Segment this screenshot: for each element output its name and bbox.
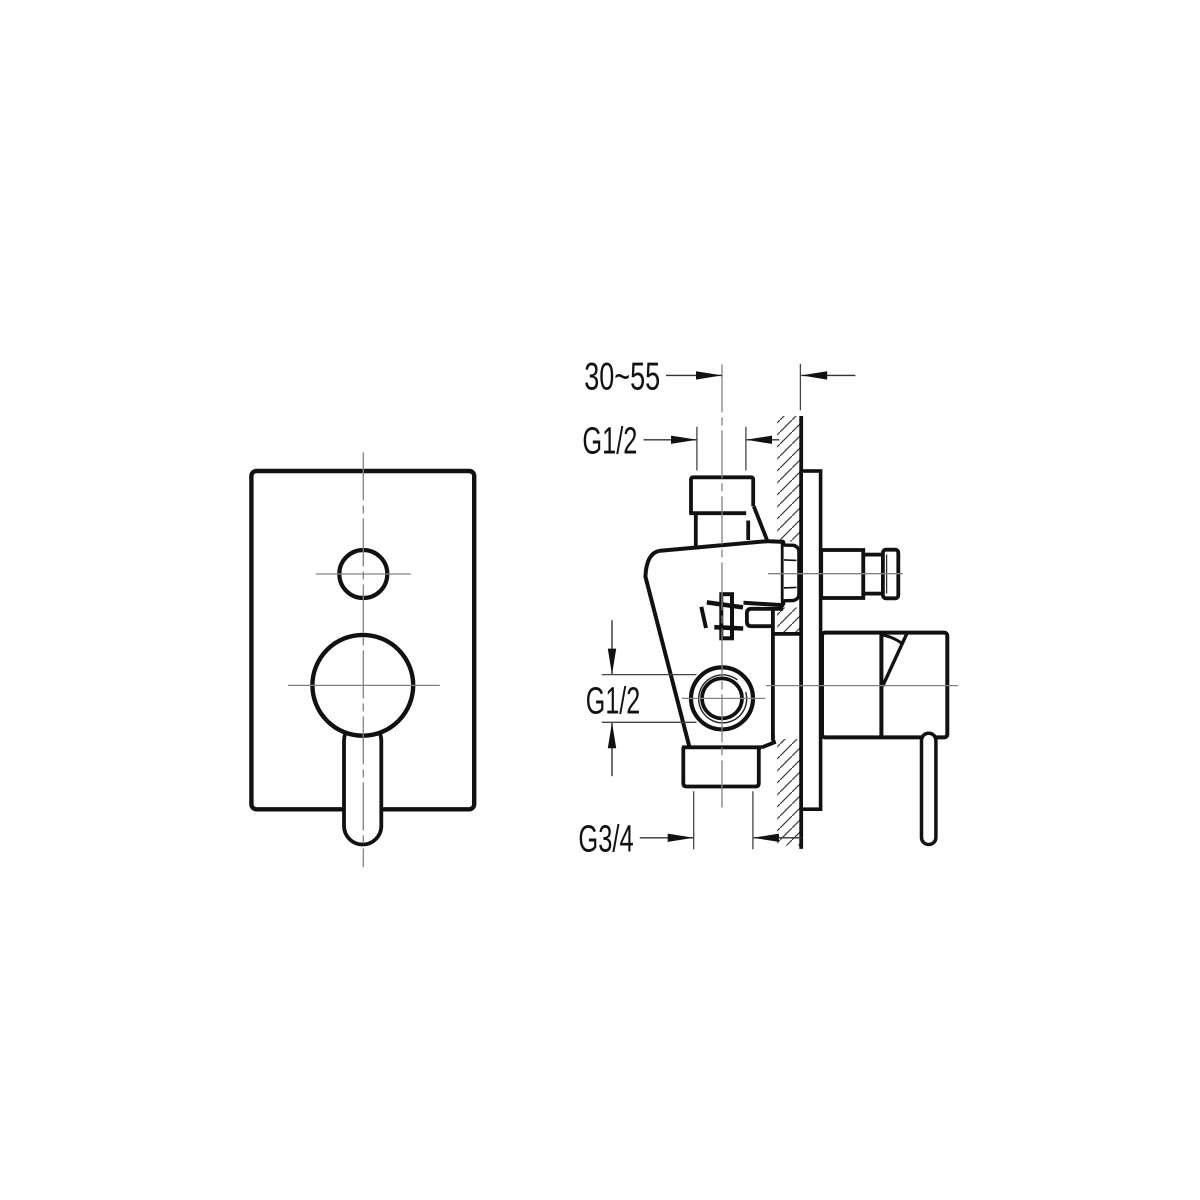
front port centerline [682, 697, 765, 699]
front port inner circle [702, 678, 742, 718]
dim 30~55 line right [801, 374, 855, 376]
wall extension line [799, 364, 801, 411]
flange inner thin line [886, 555, 888, 594]
shower outlet connector section 2 [863, 555, 883, 594]
dim 30~55 arrow right-pointing [696, 371, 722, 379]
mixer knob (big circle) [312, 635, 413, 736]
body bottom right fillet [762, 735, 776, 747]
handle cone arc [882, 635, 902, 643]
dim G3/4 arrow left-pointing [753, 834, 779, 842]
extension line outlet right [752, 791, 754, 849]
hex nut flange left edge [781, 541, 785, 606]
body left edge [645, 551, 689, 747]
dim G1/2 top arrow left-pointing [746, 436, 772, 444]
front port thread arc [699, 675, 747, 723]
body top edge [659, 541, 767, 551]
extension line port top [602, 674, 697, 676]
top pipe right slant edge [754, 506, 767, 539]
top pipe narrow left edge [694, 513, 698, 547]
dim 30~55 arrow left-pointing [801, 371, 827, 379]
vertical centerline front view [362, 452, 364, 867]
bottom outlet pipe G3/4 [682, 747, 762, 786]
bracket line to wall [773, 632, 800, 636]
dim G1/2 top line right [746, 439, 779, 441]
handle escutcheon block [822, 633, 947, 738]
dim G3/4 arrow right-pointing [668, 834, 694, 842]
dim G1/2 top arrow right-pointing [671, 436, 697, 444]
svg-text:G1/2: G1/2 [582, 420, 637, 462]
dim G3/4 line left [640, 837, 694, 839]
body right edge lower [771, 608, 775, 738]
diverter knob stem cross rect [721, 594, 732, 638]
diverter lower bar [714, 627, 743, 628]
shower outlet end flange [883, 550, 898, 599]
dim G1/2 mid lower arrow line [611, 722, 613, 776]
wall hatching middle band [777, 608, 799, 633]
dim G1/2 mid arrow up-pointing [608, 722, 616, 748]
handle axis centerline [766, 685, 958, 687]
top inlet pipe G1/2 [691, 477, 753, 513]
shower outlet centerline [768, 573, 903, 575]
front port outer circle [691, 667, 753, 729]
top pipe step line [689, 511, 746, 515]
svg-text:G3/4: G3/4 [578, 819, 633, 861]
diverter upper bar [707, 602, 743, 607]
hex nut outline [784, 545, 799, 601]
dim G1/2 mid upper arrow line [611, 620, 613, 674]
top pipe hidden right edge dash [746, 521, 750, 541]
wall connector bottom edge [744, 603, 785, 605]
wall connector top edge [766, 539, 784, 544]
hex nut face line [797, 552, 799, 594]
dim 30~55 line left [666, 374, 722, 376]
extension line pipe left [696, 427, 698, 471]
wall hatching upper band [777, 416, 799, 542]
shower outlet connector section 1 [821, 550, 863, 598]
diverter left tick [701, 607, 706, 628]
handle lever side view [922, 733, 936, 844]
dim G3/4 line right [753, 837, 801, 839]
dim G1/2 mid arrow down-pointing [608, 649, 616, 675]
wall hatching lower band [777, 739, 799, 846]
big circle horizontal centerline [288, 684, 440, 686]
handle block divider [879, 633, 883, 738]
side view vertical centerline [721, 364, 723, 807]
extension line outlet left [693, 791, 695, 849]
trim plate front rectangle [251, 471, 474, 809]
diverter housing rounded block [747, 609, 783, 626]
trim plate side (behind wall) [801, 471, 820, 809]
wall face line [799, 416, 803, 849]
extension line port bottom [602, 721, 697, 723]
dim G1/2 top line left [644, 439, 698, 441]
handle cone slant [883, 633, 908, 687]
diverter knob (small circle) [339, 550, 387, 598]
svg-text:30~55: 30~55 [584, 356, 660, 399]
small circle horizontal centerline [316, 573, 411, 575]
hex nut facet lines [784, 560, 797, 588]
handle lever (front view capsule) [344, 722, 381, 845]
extension line pipe right [745, 427, 747, 471]
svg-text:G1/2: G1/2 [586, 681, 640, 723]
